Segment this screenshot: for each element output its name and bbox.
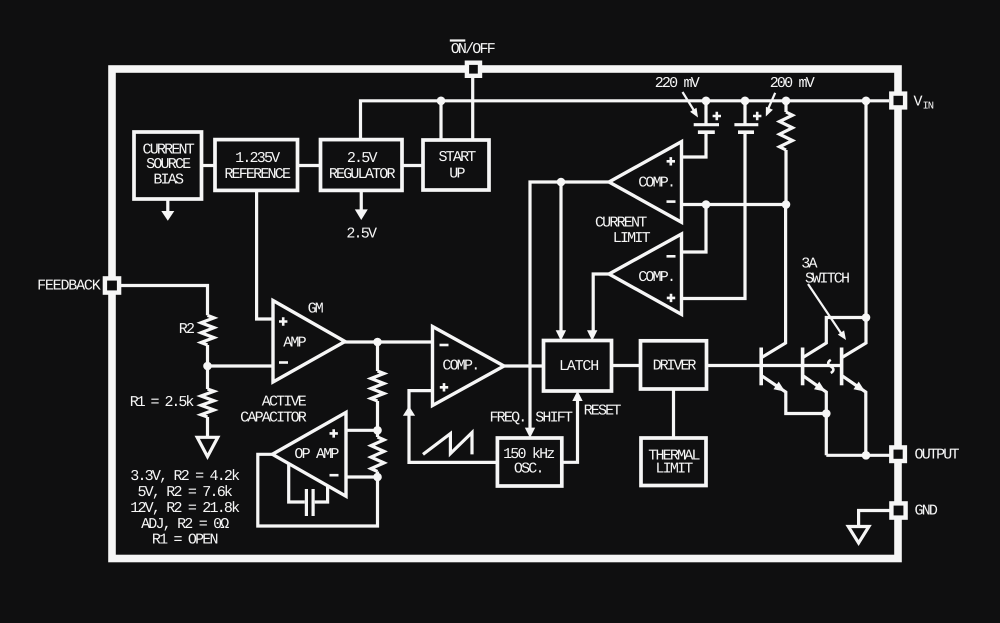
svg-text:LIMIT: LIMIT	[655, 461, 693, 478]
wire bias arrow stem	[166, 199, 169, 212]
svg-text:LATCH: LATCH	[559, 358, 598, 375]
svg-text:REGULATOR: REGULATOR	[329, 166, 396, 183]
wire comparator output to latch	[504, 364, 544, 367]
svg-text:FREQ.: FREQ.	[489, 410, 525, 427]
wire R1 to ground	[206, 417, 209, 437]
pin FEEDBACK	[105, 278, 119, 292]
wire current limit comp1 output to freq shift	[530, 182, 609, 429]
wire battery2 to comp2 plus	[682, 134, 746, 299]
annotation arrow 200mV	[767, 93, 775, 112]
wire sense resistor top	[784, 101, 787, 112]
resistor R2	[201, 315, 214, 345]
wire VIN top rail	[361, 101, 890, 142]
box 1.235V reference	[215, 140, 298, 191]
box thermal limit	[641, 438, 706, 486]
svg-text:SWITCH: SWITCH	[805, 271, 849, 288]
wire comp1 minus rail	[682, 203, 787, 206]
svg-text:R1 = 2.5k: R1 = 2.5k	[130, 394, 195, 411]
transistor Q2 collector	[803, 318, 866, 358]
wire latch to driver	[611, 364, 641, 367]
ground under R1	[197, 437, 218, 456]
node dot sense resistor rail	[782, 97, 791, 106]
chip outline border	[112, 69, 898, 559]
node dot op amp plus	[373, 426, 382, 435]
arrowhead comp2 to latch	[587, 330, 597, 340]
arrowhead freq shift to osc	[525, 428, 535, 438]
plus battery2	[753, 112, 761, 120]
wire node to GM amp minus input	[208, 364, 274, 367]
capacitor left lead	[289, 464, 305, 503]
transistor Q3 bar	[840, 348, 844, 386]
svg-text:BIAS: BIAS	[153, 172, 184, 189]
wire comp2 minus input	[682, 205, 707, 253]
label value table	[130, 468, 240, 548]
node dot battery2 rail	[741, 97, 750, 106]
minus comp2	[667, 255, 676, 258]
wire R2 to R1	[206, 345, 209, 389]
node dot Q3 collector rail	[862, 97, 871, 106]
svg-text:220 mV: 220 mV	[655, 75, 700, 92]
svg-text:LIMIT: LIMIT	[613, 230, 651, 247]
wire bias to reference	[202, 164, 217, 167]
wire on/off to start-up	[471, 76, 474, 142]
squiggle on Q3 base	[828, 360, 833, 373]
arrowhead reset to latch	[572, 391, 582, 401]
wire to op amp plus node	[376, 401, 379, 437]
box current source bias	[134, 132, 202, 199]
arrowhead bias	[161, 211, 174, 221]
arrowhead annotation 200mV	[766, 107, 773, 117]
node dot output	[862, 451, 871, 460]
capacitor plates	[305, 489, 308, 516]
wire regulator to start-up	[402, 164, 423, 167]
wire comp1 output branch to latch	[559, 182, 562, 332]
svg-text:UP: UP	[449, 166, 465, 183]
arrowhead osc to comparator	[403, 406, 415, 416]
node dot comp minus junction	[702, 200, 711, 209]
svg-text:ON/OFF: ON/OFF	[451, 41, 495, 58]
svg-text:OP AMP: OP AMP	[294, 446, 339, 463]
box 150 kHz osc	[497, 438, 561, 486]
wire op amp plus input	[346, 429, 378, 432]
node dot op amp minus	[373, 473, 382, 482]
transistor Q2 bar	[801, 348, 805, 386]
svg-text:OUTPUT: OUTPUT	[915, 447, 960, 464]
comparator main COMP	[433, 327, 505, 406]
transistor Q1 bar	[759, 348, 763, 386]
sawtooth symbol	[423, 433, 472, 455]
op-amp active capacitor	[272, 412, 346, 496]
arrowhead annotation 3A switch	[838, 330, 846, 340]
wire reference to regulator	[298, 164, 321, 167]
node dot Q1 Q2 emitter	[822, 409, 831, 418]
wire sense resistor to rail	[784, 150, 787, 205]
wire gnd pin to ground	[859, 511, 890, 527]
transistor Q2 emitter	[803, 375, 827, 455]
transistor Q1 emitter	[761, 375, 826, 413]
resistor chain lower	[371, 437, 384, 472]
annotation arrow 220mV	[683, 92, 696, 113]
comparator current limit 2	[609, 234, 682, 314]
arrowhead 2.5v	[355, 209, 368, 220]
arrowhead Q1 emitter	[774, 382, 786, 392]
node dot battery1 rail	[702, 97, 711, 106]
svg-text:ACTIVE: ACTIVE	[262, 393, 307, 410]
pin OUTPUT	[891, 447, 905, 461]
wire oscillator reset to latch	[562, 401, 578, 462]
battery B2 plates	[734, 123, 758, 126]
plus COMP	[440, 383, 448, 391]
resistor sense	[780, 112, 793, 150]
box driver	[641, 341, 707, 389]
box latch	[544, 341, 612, 392]
wire battery2 top	[743, 101, 746, 124]
svg-text:12V, R2 = 21.8k: 12V, R2 = 21.8k	[130, 500, 240, 517]
svg-text:SOURCE: SOURCE	[146, 156, 191, 173]
overline ON	[450, 39, 466, 41]
plus battery1	[713, 112, 721, 120]
wire comp2 output to latch	[593, 274, 609, 332]
plus comp2	[667, 294, 675, 302]
svg-text:COMP.: COMP.	[638, 175, 674, 192]
svg-text:FEEDBACK: FEEDBACK	[37, 278, 101, 295]
battery B1 plates	[694, 123, 719, 126]
wire GM amp output to comparator minus	[344, 340, 433, 343]
wire 2.5v arrow stem	[360, 190, 363, 211]
annotation arrow 3A switch	[808, 284, 842, 335]
svg-text:SHIFT: SHIFT	[535, 410, 573, 427]
op-amp GM AMP	[273, 301, 345, 383]
minus GM	[279, 361, 288, 364]
transistor Q1 collector	[761, 205, 785, 358]
box 2.5V regulator	[321, 140, 403, 191]
svg-text:R2: R2	[179, 321, 194, 338]
arrowhead comp1 to latch	[556, 330, 566, 340]
svg-text:5V, R2 = 7.6k: 5V, R2 = 7.6k	[137, 484, 232, 501]
arrowhead Q2 emitter	[814, 382, 826, 392]
wire driver to thermal limit	[672, 388, 675, 438]
plus GM	[279, 317, 287, 325]
svg-text:OSC.: OSC.	[514, 461, 543, 478]
svg-text:COMP.: COMP.	[638, 269, 674, 286]
wire feedback pin to R2	[121, 286, 208, 316]
wire battery1 top	[704, 101, 707, 124]
transistor Q3 collector	[842, 101, 866, 358]
plus comp1	[667, 157, 675, 165]
wire oscillator to comparator plus input	[409, 391, 497, 463]
node dot start-up rail	[437, 97, 446, 106]
node dot Q2 Q3 collector	[862, 313, 871, 322]
svg-text:RESET: RESET	[584, 403, 622, 420]
box start up	[423, 140, 489, 190]
node dot GM output	[373, 338, 382, 347]
wire battery1 to comp1 plus	[682, 134, 707, 158]
svg-text:AMP: AMP	[283, 335, 306, 352]
svg-text:1.235V: 1.235V	[235, 150, 280, 167]
svg-text:CURRENT: CURRENT	[595, 215, 647, 232]
wire reference to GM amp plus input	[257, 189, 273, 319]
svg-text:DRIVER: DRIVER	[653, 358, 697, 375]
svg-text:2.5V: 2.5V	[346, 226, 377, 243]
wire start-up from rail	[439, 101, 442, 142]
minus COMP	[440, 344, 449, 347]
svg-text:200 mV: 200 mV	[770, 75, 815, 92]
svg-text:GM: GM	[308, 301, 324, 318]
node dot feedback divider	[203, 362, 212, 371]
resistor chain upper	[371, 371, 384, 401]
svg-text:START: START	[438, 149, 476, 166]
svg-text:CAPACITOR: CAPACITOR	[240, 410, 307, 427]
pin GND	[891, 503, 905, 517]
svg-text:2.5V: 2.5V	[347, 150, 378, 167]
plus op amp	[330, 429, 338, 437]
resistor R1	[201, 389, 214, 417]
transistor Q3 emitter	[842, 375, 866, 455]
svg-text:REFERENCE: REFERENCE	[224, 166, 291, 183]
wire driver to transistor bases	[706, 364, 842, 367]
wire op amp feedback loop	[258, 454, 378, 526]
minus op amp	[330, 474, 339, 477]
svg-text:R1 = OPEN: R1 = OPEN	[152, 532, 218, 549]
minus comp1	[667, 200, 676, 203]
wire op amp minus input	[346, 475, 378, 478]
pin VIN	[891, 94, 905, 108]
svg-text:3.3V, R2 = 4.2k: 3.3V, R2 = 4.2k	[130, 468, 240, 485]
node dot comp1 output	[557, 178, 566, 187]
svg-text:COMP.: COMP.	[442, 358, 478, 375]
ground symbol gnd	[848, 527, 869, 544]
wire output rail	[826, 454, 890, 457]
svg-text:IN: IN	[923, 101, 934, 113]
arrowhead Q3 emitter	[854, 382, 866, 392]
arrowhead annotation 220mV	[690, 108, 698, 118]
pin ON/OFF	[467, 63, 480, 76]
comparator current limit 1	[609, 142, 682, 223]
wire chain node down to resistor	[376, 342, 379, 371]
capacitor right lead	[315, 486, 328, 502]
svg-text:GND: GND	[915, 503, 938, 520]
node dot sense bottom	[782, 200, 791, 209]
